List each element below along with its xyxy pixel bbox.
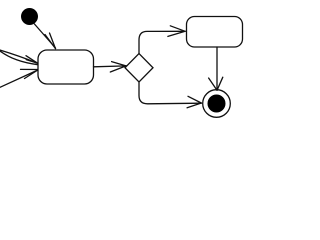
wire: external transition 2 into S1 left <box>0 50 38 64</box>
arrowhead of external transition 3 <box>21 69 38 78</box>
arrowhead into decision node <box>110 62 126 72</box>
action state S2 <box>187 17 243 48</box>
arrowhead into S1 top <box>45 33 56 49</box>
wire: transition initial node to action state S1 <box>34 24 56 49</box>
arrowhead into final node top <box>209 77 223 90</box>
wire: transition S1 to decision node <box>94 65 127 68</box>
wire: transition S2 to final node <box>216 47 218 90</box>
initial node <box>21 8 38 25</box>
wire: transition decision node to final node <box>139 82 201 104</box>
final node (outer ring) <box>203 90 231 118</box>
action state S1 <box>38 50 94 84</box>
decision node (diamond) <box>125 54 153 83</box>
wire: external transition 1 into S1 left <box>0 50 38 64</box>
arrowhead into final node left <box>187 96 201 108</box>
wire: transition decision node to action state S2 <box>139 31 185 53</box>
final node (inner disc) <box>208 95 226 113</box>
wire: external transition 3 into S1 left <box>0 70 38 88</box>
arrowhead of external transition 1 <box>26 56 38 64</box>
arrowhead into S2 left <box>168 26 185 37</box>
